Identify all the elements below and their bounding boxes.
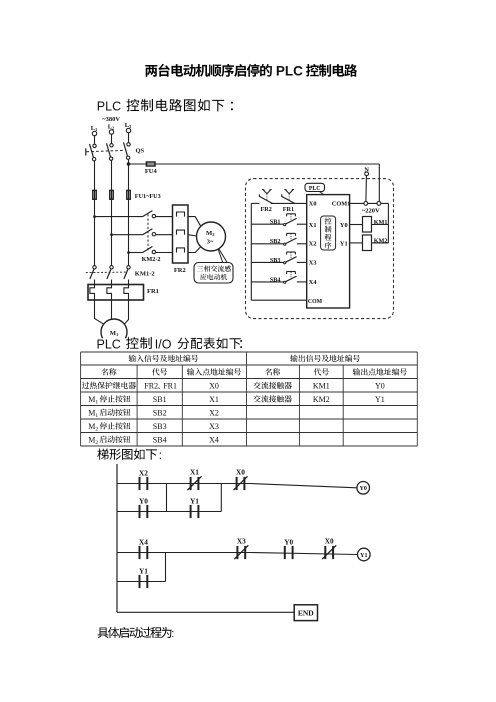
svg-text:Y0: Y0 <box>375 381 385 390</box>
heading: PLC I/O allocation table <box>97 337 243 351</box>
heading: ladder diagram <box>97 448 162 461</box>
svg-text:X1: X1 <box>309 222 317 229</box>
svg-text:X0: X0 <box>325 537 334 546</box>
svg-text:X3: X3 <box>309 260 317 267</box>
rung1 wire <box>117 484 357 488</box>
svg-text:M1: M1 <box>88 395 98 406</box>
pin X0 <box>309 201 317 208</box>
PLC controller U1 <box>307 195 350 308</box>
svg-text:KM1-2: KM1-2 <box>135 271 155 278</box>
node B wire <box>220 484 222 512</box>
coil KM1 <box>363 217 389 233</box>
svg-text:M2: M2 <box>88 422 98 433</box>
wire QS to FU1 <box>94 160 96 216</box>
svg-text:SB3: SB3 <box>270 257 281 264</box>
contact X1 NC <box>188 468 202 491</box>
node C wire <box>165 553 167 582</box>
svg-text:I/O: I/O <box>155 337 172 351</box>
wire FU2 down to KM1-2 <box>110 233 113 265</box>
svg-text:X4: X4 <box>309 279 318 286</box>
control program box <box>321 216 336 250</box>
END block <box>294 605 317 621</box>
contact Y0 latch <box>139 497 148 518</box>
wire N to 220V terminal <box>365 176 368 202</box>
wire branch L3 to KM2-2 <box>129 252 143 254</box>
table row SB2 <box>88 408 219 419</box>
svg-text::: : <box>171 628 174 640</box>
svg-text:PLC: PLC <box>276 64 303 79</box>
node L3 <box>125 122 132 133</box>
motor M1 <box>95 319 133 347</box>
wire FR1 to motor M1 phase1 <box>95 300 105 324</box>
coil KM2 <box>363 235 389 251</box>
node A wire <box>166 484 168 512</box>
callout leader motor M2 <box>218 249 227 263</box>
svg-text:END: END <box>298 608 314 617</box>
svg-text:Y1: Y1 <box>375 395 385 404</box>
net ~220V label <box>362 207 380 214</box>
net ~380V label <box>102 116 120 123</box>
svg-text:Y0: Y0 <box>284 538 293 547</box>
svg-text:KM1: KM1 <box>374 219 388 226</box>
svg-text:FU4: FU4 <box>145 168 158 175</box>
thermal relay FR2 <box>173 205 189 274</box>
svg-text:Y0: Y0 <box>360 486 367 492</box>
svg-text:FR1: FR1 <box>163 381 177 390</box>
svg-text:SB4: SB4 <box>153 435 167 444</box>
svg-text:X1: X1 <box>209 395 219 404</box>
pin X3 <box>309 260 317 267</box>
svg-text:X0: X0 <box>209 381 219 390</box>
contact X0 NC rung2 <box>322 537 336 560</box>
contact X2 <box>139 469 148 491</box>
pin Y0 <box>340 222 348 229</box>
svg-text:SB1: SB1 <box>153 395 167 404</box>
PLC badge <box>305 183 325 194</box>
pin X4 <box>309 279 318 286</box>
wire FU4 to PLC supply <box>129 164 380 203</box>
svg-text:X4: X4 <box>209 435 219 444</box>
svg-text:KM2: KM2 <box>374 237 388 244</box>
svg-text:SB3: SB3 <box>153 422 167 431</box>
svg-text:X0: X0 <box>309 201 317 208</box>
svg-text:Y1: Y1 <box>360 553 367 559</box>
pin X2 <box>309 241 317 248</box>
pin COM1 <box>332 201 351 208</box>
svg-text:X4: X4 <box>139 538 148 547</box>
ladder left power rail <box>116 464 118 612</box>
svg-text:X2: X2 <box>309 241 317 248</box>
table column headers <box>101 368 406 375</box>
heading: PLC circuit diagram <box>97 99 233 114</box>
contact X4 <box>139 538 148 560</box>
table row SB3 <box>88 422 219 433</box>
svg-text:M1: M1 <box>88 408 98 419</box>
rung1 branch wire <box>117 511 221 513</box>
svg-text:KM2-2: KM2-2 <box>142 256 161 263</box>
svg-text:PLC: PLC <box>97 337 121 351</box>
svg-text:Y1: Y1 <box>190 497 199 506</box>
wire QS to FU2 <box>111 160 113 235</box>
svg-text:QS: QS <box>136 148 145 155</box>
svg-text:X2: X2 <box>209 408 219 417</box>
wire L1 to QS <box>94 136 96 144</box>
pin COM <box>308 299 323 305</box>
svg-text:FR2: FR2 <box>261 206 272 213</box>
wire QS to FU3 with tap junction <box>127 159 131 253</box>
wire Y0 to KM1 coil <box>350 224 363 226</box>
svg-text:~220V: ~220V <box>362 207 380 214</box>
coil Y0 <box>357 482 370 495</box>
svg-text:COM: COM <box>308 299 323 305</box>
contact KM1-2 <box>86 266 155 285</box>
terminal 220V left <box>364 202 368 206</box>
svg-text:SB4: SB4 <box>270 276 281 283</box>
pin Y1 <box>340 241 348 248</box>
motor M2 <box>197 222 226 251</box>
wire L2 to QS <box>111 134 113 143</box>
wire FR1 to motor M1 phase2 <box>111 300 113 319</box>
thermal contact FR1 <box>282 190 295 213</box>
svg-text:PLC: PLC <box>309 186 321 192</box>
svg-text:X0: X0 <box>236 468 245 477</box>
svg-text:~380V: ~380V <box>102 116 120 123</box>
coil Y1 <box>358 548 371 561</box>
node L2 <box>108 124 115 135</box>
PLC enclosure dashed box <box>246 179 394 319</box>
switch QS <box>86 142 145 161</box>
svg-text:X2: X2 <box>139 469 148 478</box>
svg-text:Y1: Y1 <box>139 567 148 576</box>
svg-text:FR1: FR1 <box>147 288 159 295</box>
contact KM2-2 <box>142 211 173 263</box>
svg-text:Y1: Y1 <box>340 241 348 248</box>
svg-text:COM1: COM1 <box>332 201 351 208</box>
END rung wire <box>117 611 294 613</box>
wire FR2 to motor M2 phase2 <box>188 235 197 236</box>
svg-text:FR2: FR2 <box>174 267 186 274</box>
contact X0 NC <box>234 468 248 491</box>
title text <box>145 64 357 79</box>
fuse FU4 <box>129 162 158 175</box>
wire FR2 to motor M2 phase1 <box>188 217 201 227</box>
push button SB2 <box>251 233 306 245</box>
svg-text:SB2: SB2 <box>153 408 167 417</box>
rung2 branch wire <box>117 581 166 583</box>
wire L3 to QS <box>128 133 130 143</box>
rung2 wire <box>117 553 358 555</box>
wire branch L2 to KM2-2 <box>112 234 143 236</box>
contact Y1 latch <box>139 567 148 589</box>
table grid <box>81 352 418 446</box>
svg-text:3~: 3~ <box>207 239 214 246</box>
push button SB4 <box>251 272 306 284</box>
table row FR relays <box>82 381 385 390</box>
svg-text:M2: M2 <box>88 435 98 446</box>
table row SB4 <box>88 435 219 446</box>
svg-text:SB1: SB1 <box>270 219 281 226</box>
wire X0 row <box>251 202 306 204</box>
thermal relay FR1 <box>88 285 159 301</box>
table group headers <box>129 355 360 362</box>
node L1 <box>91 125 98 136</box>
svg-text:FU1~FU3: FU1~FU3 <box>135 193 161 200</box>
svg-text:Y0: Y0 <box>340 222 348 229</box>
table row SB1 <box>88 395 385 406</box>
wire branch L1 to KM2-2 <box>95 216 143 218</box>
svg-text:X3: X3 <box>237 537 246 546</box>
fuses FU1~FU3 <box>93 190 161 199</box>
svg-text:X1: X1 <box>190 468 199 477</box>
svg-text::: : <box>159 450 162 462</box>
svg-text:PLC: PLC <box>97 100 121 114</box>
wire Y1 to KM2 coil <box>350 242 363 244</box>
wire FR2 to motor M2 phase3 <box>188 247 201 253</box>
contact Y1 interlock <box>190 497 199 518</box>
svg-text:FR2: FR2 <box>144 381 158 390</box>
callout label three-phase AC induction motor <box>194 263 233 284</box>
pin X1 <box>309 222 317 229</box>
svg-text:FR1: FR1 <box>283 206 294 213</box>
push button SB3 <box>251 252 306 264</box>
thermal contact FR2 <box>259 190 272 213</box>
svg-text:KM1: KM1 <box>313 381 330 390</box>
terminal 220V right <box>377 202 381 206</box>
push button SB1 <box>251 214 306 226</box>
svg-text:KM2: KM2 <box>313 395 330 404</box>
wire FR1 to motor M1 phase3 <box>124 300 128 324</box>
node N <box>364 166 369 175</box>
wire FU3 down to KM1-2 <box>127 251 130 266</box>
svg-text:Y0: Y0 <box>139 497 148 506</box>
svg-text:SB2: SB2 <box>270 238 281 245</box>
wire COM row <box>251 299 306 301</box>
heading: startup process <box>97 627 174 640</box>
wire COM1 to terminals <box>350 202 389 204</box>
input common rail wire <box>250 203 252 300</box>
svg-text:X3: X3 <box>209 422 219 431</box>
wire 220V right down <box>387 203 389 243</box>
contact Y0 rung2 <box>284 538 293 560</box>
wire FU1 down to KM1-2 <box>93 215 96 265</box>
contact X3 NC <box>234 537 248 560</box>
